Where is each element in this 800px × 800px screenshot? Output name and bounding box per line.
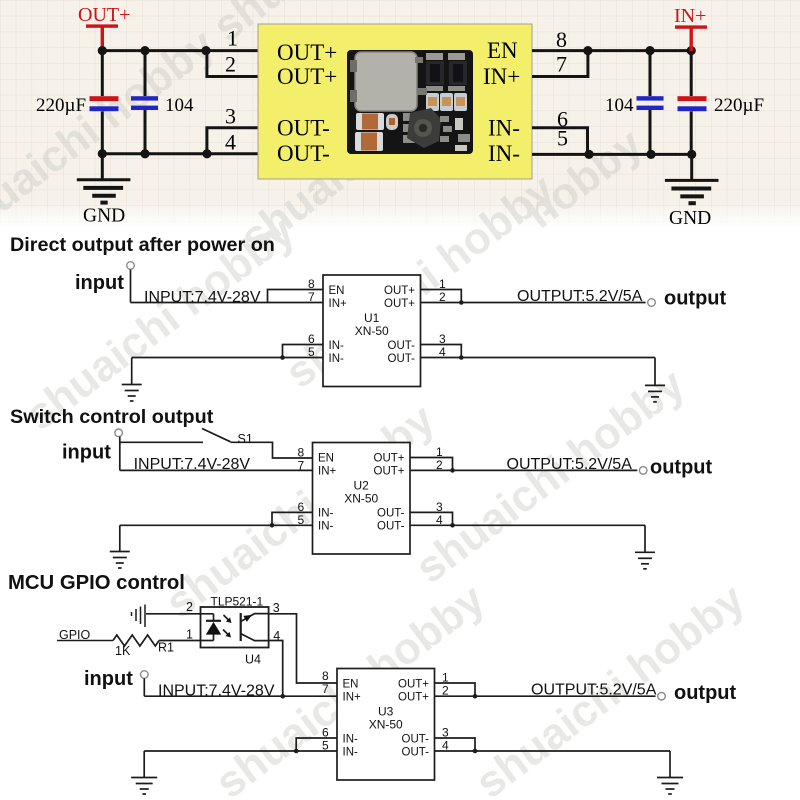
svg-text:GND: GND: [669, 208, 711, 229]
wire OUT- jog right: [435, 738, 476, 751]
svg-text:IN-: IN-: [318, 521, 334, 533]
wire bottom rail right: [532, 153, 692, 156]
capacitor C4 220uF: [678, 51, 707, 155]
wire IN- row: [144, 750, 337, 752]
wire IN- row: [120, 524, 313, 526]
svg-text:input: input: [84, 668, 133, 690]
node junction: [202, 149, 211, 158]
wire input drop: [143, 678, 145, 696]
svg-text:GND: GND: [83, 206, 125, 227]
svg-text:OUTPUT:5.2V/5A: OUTPUT:5.2V/5A: [531, 682, 657, 699]
svg-text:OUT+: OUT+: [384, 285, 415, 297]
svg-text:1K: 1K: [115, 644, 131, 658]
terminal output: [658, 692, 666, 700]
node junction: [294, 749, 299, 754]
op-amp U1 body: [323, 275, 421, 387]
ground left: [122, 358, 142, 402]
svg-text:U1: U1: [364, 311, 380, 325]
svg-text:4: 4: [225, 130, 236, 155]
node junction: [140, 149, 149, 158]
svg-text:OUT-: OUT-: [388, 353, 416, 365]
transistor Q1 inside U4: [241, 613, 269, 641]
svg-text:1: 1: [436, 445, 443, 459]
svg-text:EN: EN: [487, 38, 518, 63]
svg-text:8: 8: [308, 277, 315, 291]
svg-text:OUT+: OUT+: [277, 64, 337, 89]
wire R1 to pin1: [159, 640, 213, 642]
svg-text:INPUT:7.4V-28V: INPUT:7.4V-28V: [144, 289, 261, 306]
svg-text:1: 1: [227, 26, 238, 51]
node junction: [687, 46, 696, 55]
svg-text:8: 8: [298, 446, 305, 460]
svg-text:OUT+: OUT+: [277, 40, 337, 65]
power symbol MCU VCC: [132, 605, 146, 628]
svg-text:IN+: IN+: [318, 466, 337, 478]
node junction: [98, 149, 107, 158]
ground right: [665, 154, 719, 203]
node junction: [280, 355, 285, 360]
wire input drop: [119, 437, 121, 471]
node junction: [646, 150, 655, 159]
wire pin2 jog left: [207, 51, 258, 77]
light arrow: [224, 615, 232, 623]
wire IN- jog: [283, 345, 324, 358]
op-amp U3 body: [337, 669, 435, 781]
node junction: [450, 468, 455, 473]
svg-text:7: 7: [308, 290, 315, 304]
svg-text:OUT+: OUT+: [384, 298, 415, 310]
wire OUT- jog right: [421, 345, 462, 358]
svg-text:output: output: [664, 288, 727, 310]
svg-text:2: 2: [225, 52, 236, 77]
svg-text:IN+: IN+: [483, 64, 520, 89]
svg-text:IN+: IN+: [343, 692, 362, 704]
terminal input: [115, 429, 123, 437]
ground right: [645, 385, 665, 402]
svg-text:8: 8: [556, 27, 567, 52]
svg-text:IN+: IN+: [329, 298, 348, 310]
svg-text:OUT+: OUT+: [398, 692, 429, 704]
svg-text:IN-: IN-: [329, 353, 345, 365]
svg-text:3: 3: [436, 500, 443, 514]
wire OUT- drop: [644, 525, 646, 552]
svg-text:output: output: [674, 682, 737, 704]
svg-text:OUT-: OUT-: [377, 508, 405, 520]
svg-text:220µF: 220µF: [36, 95, 86, 116]
wire input drop: [130, 269, 132, 302]
wire IN+ lead: [690, 28, 693, 51]
node junction: [201, 46, 210, 55]
svg-text:1: 1: [186, 628, 193, 642]
opto-coupler U4 body: [201, 607, 269, 648]
svg-text:R1: R1: [158, 641, 174, 655]
svg-text:7: 7: [322, 682, 329, 696]
svg-text:input: input: [62, 442, 111, 464]
terminal input: [127, 262, 135, 270]
svg-text:OUT-: OUT-: [377, 521, 405, 533]
terminal output: [639, 467, 647, 475]
svg-text:7: 7: [556, 52, 567, 77]
terminal input: [141, 671, 149, 679]
wire pin7 jog right: [532, 51, 588, 77]
node junction: [270, 523, 275, 528]
svg-text:1: 1: [442, 671, 449, 685]
node junction: [140, 46, 149, 55]
svg-text:8: 8: [322, 669, 329, 683]
svg-text:104: 104: [165, 95, 194, 116]
svg-text:OUT-: OUT-: [402, 747, 430, 759]
svg-text:IN+: IN+: [674, 5, 706, 27]
svg-text:IN-: IN-: [318, 508, 334, 520]
wire IN+ row: [144, 695, 337, 697]
node junction: [583, 46, 592, 55]
wire pin4 to IN+: [269, 641, 283, 697]
svg-text:output: output: [650, 457, 713, 479]
wire OUT+ jog right: [410, 458, 453, 471]
wire pin3 jog left: [207, 128, 258, 154]
svg-text:6: 6: [322, 726, 329, 740]
wire top rail right: [532, 49, 691, 52]
ground left: [110, 525, 130, 568]
wire IN+ row: [131, 302, 324, 304]
svg-text:Direct output after power on: Direct output after power on: [10, 234, 275, 256]
wire OUT- drop: [669, 751, 671, 778]
svg-text:OUT+: OUT+: [398, 679, 429, 691]
svg-text:IN-: IN-: [343, 747, 359, 759]
wire OUT- row: [435, 750, 671, 752]
node junction: [280, 694, 285, 699]
svg-text:U2: U2: [354, 479, 370, 493]
svg-text:input: input: [75, 272, 124, 294]
wire pin3 to EN: [269, 614, 337, 683]
wire switch feed: [120, 441, 203, 443]
module XN-50 body: [258, 24, 532, 179]
svg-text:IN-: IN-: [343, 734, 359, 746]
svg-text:EN: EN: [343, 679, 359, 691]
wire OUT+ jog right: [435, 683, 476, 696]
node junction: [473, 749, 478, 754]
ground left: [131, 751, 157, 794]
wire pin6 jog right: [532, 128, 588, 155]
module PCB photo: [347, 50, 473, 154]
svg-text:TLP521-1: TLP521-1: [211, 595, 264, 609]
ground right: [635, 552, 655, 569]
node junction: [450, 523, 455, 528]
resistor R1: [113, 635, 159, 646]
light arrow: [223, 630, 231, 638]
diode LED inside U4: [206, 614, 221, 641]
terminal IN+: [674, 5, 707, 29]
wire OUT- row: [421, 357, 656, 359]
svg-text:IN-: IN-: [488, 116, 520, 141]
wire bottom rail left: [102, 152, 258, 155]
wire EN jog: [268, 290, 324, 303]
wire OUT- drop: [654, 358, 656, 386]
wire OUT+ row: [421, 302, 646, 304]
node junction: [459, 355, 464, 360]
wire IN+ row: [120, 469, 313, 471]
svg-text:IN-: IN-: [488, 141, 520, 166]
svg-text:OUTPUT:5.2V/5A: OUTPUT:5.2V/5A: [517, 288, 643, 305]
op-amp U2 body: [313, 443, 411, 555]
svg-text:U4: U4: [245, 653, 261, 667]
wire IN- jog: [272, 512, 313, 525]
wire GPIO lead: [57, 640, 113, 642]
svg-text:2: 2: [186, 600, 193, 614]
node junction: [687, 150, 696, 159]
svg-text:XN-50: XN-50: [355, 324, 389, 338]
wire OUT- row: [410, 524, 645, 526]
svg-text:U3: U3: [378, 705, 394, 719]
svg-text:Switch control output: Switch control output: [10, 406, 214, 428]
terminal output: [648, 299, 656, 307]
capacitor C2 104: [131, 51, 158, 154]
svg-text:5: 5: [308, 345, 315, 359]
node junction: [98, 46, 107, 55]
wire IN- jog: [296, 738, 337, 751]
svg-text:OUT+: OUT+: [78, 4, 130, 26]
wire OUT+ jog right: [421, 290, 462, 303]
svg-text:OUT-: OUT-: [388, 340, 416, 352]
wire OUT+ row: [410, 469, 637, 471]
svg-text:XN-50: XN-50: [369, 718, 403, 732]
svg-text:6: 6: [308, 332, 315, 346]
svg-text:OUT-: OUT-: [402, 734, 430, 746]
svg-text:OUT-: OUT-: [277, 141, 330, 166]
svg-text:6: 6: [298, 500, 305, 514]
svg-text:OUT-: OUT-: [277, 116, 330, 141]
svg-text:OUT+: OUT+: [374, 453, 405, 465]
wire pin2 feed: [146, 613, 214, 615]
svg-text:3: 3: [225, 104, 236, 129]
svg-text:OUTPUT:5.2V/5A: OUTPUT:5.2V/5A: [507, 456, 633, 473]
svg-text:3: 3: [273, 601, 280, 615]
capacitor C3 104: [637, 51, 664, 155]
svg-text:5: 5: [322, 739, 329, 753]
wire switch to EN: [231, 442, 313, 458]
ground right: [657, 778, 683, 795]
svg-text:220µF: 220µF: [714, 95, 764, 116]
switch S1 blade: [202, 429, 231, 442]
svg-text:MCU GPIO control: MCU GPIO control: [8, 572, 185, 594]
node junction: [645, 46, 654, 55]
svg-text:104: 104: [605, 95, 634, 116]
wire OUT+ row: [435, 695, 656, 697]
node junction: [473, 694, 478, 699]
wire OUT- jog right: [410, 512, 453, 525]
svg-text:S1: S1: [238, 432, 253, 446]
svg-text:XN-50: XN-50: [344, 492, 378, 506]
svg-text:IN-: IN-: [329, 340, 345, 352]
wire top rail left: [102, 49, 258, 52]
capacitor C1 220uF: [90, 51, 119, 154]
node junction: [459, 300, 464, 305]
wire OUT+ lead: [101, 27, 104, 51]
wire IN- row: [132, 357, 323, 359]
svg-text:EN: EN: [329, 285, 345, 297]
svg-text:EN: EN: [318, 453, 334, 465]
svg-text:3: 3: [442, 726, 449, 740]
ground left: [77, 154, 131, 203]
svg-text:1: 1: [439, 277, 446, 291]
node junction: [584, 150, 593, 159]
svg-text:3: 3: [439, 332, 446, 346]
terminal OUT+: [78, 4, 130, 28]
svg-text:OUT+: OUT+: [374, 466, 405, 478]
svg-text:5: 5: [298, 513, 305, 527]
